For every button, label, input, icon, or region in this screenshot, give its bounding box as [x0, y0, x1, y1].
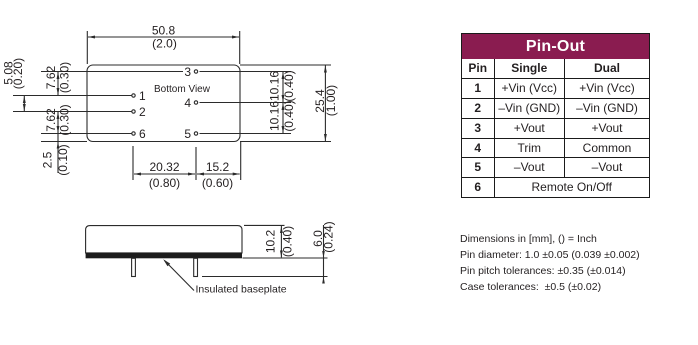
- svg-text:(0.80): (0.80): [149, 176, 180, 190]
- wire: pin 2 extension line: [13, 111, 132, 113]
- pin 3 circle: [194, 70, 197, 73]
- table row pin 2: [462, 98, 495, 118]
- side view pin left: [132, 258, 136, 276]
- dimension 5.08 line: [23, 96, 25, 111]
- dimension 10.2 line: [280, 226, 282, 257]
- svg-text:20.32: 20.32: [149, 160, 179, 174]
- label pin 5: [184, 127, 191, 141]
- svg-text:(0.60): (0.60): [202, 176, 233, 190]
- svg-text:7.62: 7.62: [44, 65, 58, 89]
- svg-text:10.16: 10.16: [268, 101, 282, 131]
- label (0.10) rotated: [56, 144, 70, 175]
- leader arrow to insulated baseplate: [163, 259, 194, 290]
- side view pin right: [194, 258, 198, 276]
- svg-text:3: 3: [184, 65, 191, 79]
- label 25.4 rotated: [313, 89, 327, 113]
- svg-text:(2.0): (2.0): [152, 37, 177, 51]
- svg-text:Bottom View: Bottom View: [154, 84, 211, 95]
- label pin 4: [184, 96, 191, 110]
- svg-text:(0.40): (0.40): [280, 226, 294, 257]
- label (0.20) rotated: [11, 58, 25, 89]
- wire: pin 1 extension line: [13, 95, 132, 97]
- dimension 2.5 line with outside arrow: [57, 134, 60, 174]
- svg-text:4: 4: [184, 96, 191, 110]
- svg-text:10.2: 10.2: [263, 229, 277, 253]
- pin 5 circle: [194, 132, 197, 135]
- label Bottom View: [154, 84, 211, 95]
- label (0.40) lower right rotated: [282, 100, 296, 131]
- table column headers: [462, 59, 495, 78]
- wire: pin 3 right extension line: [200, 71, 292, 73]
- svg-text:1: 1: [139, 89, 146, 103]
- table row pin 6: [462, 177, 495, 197]
- dimension 25.4 line: [324, 66, 326, 142]
- dimension 10.16 upper line: [282, 72, 284, 102]
- dimension 20.32 / 15.2 extension lines: [133, 142, 241, 180]
- label pin 2: [139, 105, 146, 119]
- dimension 10.16 lower line: [282, 103, 284, 133]
- wire: box bottom edge extended right: [240, 141, 331, 143]
- svg-text:(1.00): (1.00): [324, 85, 338, 116]
- label 5.08 rotated: [2, 61, 16, 85]
- label (1.00) rotated: [324, 85, 338, 116]
- wire: pin 5 extension line: [200, 133, 292, 135]
- table row pin 1: [462, 78, 495, 98]
- svg-text:2: 2: [139, 105, 146, 119]
- dimension 7.62 upper line: [57, 72, 59, 95]
- label 7.62 lower rotated: [44, 108, 58, 132]
- dimension 50.8 extension lines: [87, 31, 239, 64]
- label 10.2 rotated: [263, 229, 277, 253]
- label 2.5 rotated: [40, 151, 54, 168]
- svg-text:(0.24): (0.24): [322, 221, 336, 252]
- wire: box top edge extended right: [240, 64, 331, 66]
- svg-text:6: 6: [139, 127, 146, 141]
- label (2.0): [152, 37, 177, 51]
- wire: baseplate bottom extension line: [243, 257, 328, 259]
- pin 1 circle: [132, 94, 135, 97]
- notes text block: [460, 231, 640, 295]
- dimension 6.0 line with outside arrows: [322, 225, 325, 284]
- dimension 20.32 line: [134, 173, 195, 175]
- svg-text:(0.30): (0.30): [58, 62, 72, 93]
- dimension 15.2 line: [197, 173, 240, 175]
- side view insulated baseplate (black strip): [86, 253, 242, 258]
- label 10.16 upper rotated: [268, 71, 282, 101]
- label (0.40) upper right rotated: [282, 70, 296, 101]
- table row pin 3: [462, 118, 495, 138]
- label pin 6: [139, 127, 146, 141]
- label (0.30) lower rotated: [58, 104, 72, 135]
- dimension 50.8 line: [88, 36, 239, 38]
- wire: pin 3 left extension line: [41, 71, 183, 73]
- svg-text:(0.10): (0.10): [56, 144, 70, 175]
- table row pin 5: [462, 157, 495, 177]
- wire: pin tip extension line: [202, 276, 328, 278]
- label 10.16 lower rotated: [268, 101, 282, 131]
- svg-text:15.2: 15.2: [206, 160, 230, 174]
- label 7.62 upper rotated: [44, 65, 58, 89]
- svg-text:(0.40): (0.40): [282, 70, 296, 101]
- label (0.24) rotated: [322, 221, 336, 252]
- table header Pin-Out: [462, 34, 649, 59]
- svg-text:(0.30): (0.30): [58, 104, 72, 135]
- label (0.80): [149, 176, 180, 190]
- label Insulated baseplate: [196, 284, 287, 296]
- pin 6 circle: [132, 132, 135, 135]
- label (0.40) side view rotated: [280, 226, 294, 257]
- top view package outline: [87, 65, 240, 142]
- svg-text:50.8: 50.8: [152, 23, 176, 37]
- label pin 1: [139, 89, 146, 103]
- label 6.0 rotated: [311, 230, 325, 247]
- pin 4 circle: [194, 101, 197, 104]
- svg-text:10.16: 10.16: [268, 71, 282, 101]
- Pin-Out table: [461, 33, 650, 198]
- label (0.30) upper rotated: [58, 62, 72, 93]
- label pin 3: [184, 65, 191, 79]
- svg-text:Insulated baseplate: Insulated baseplate: [196, 284, 287, 296]
- label 15.2: [206, 160, 230, 174]
- dimension 7.62 lower line: [57, 112, 59, 133]
- svg-text:(0.20): (0.20): [11, 58, 25, 89]
- wire: pin 6 extension line: [41, 133, 132, 135]
- svg-text:(0.40): (0.40): [282, 100, 296, 131]
- label (0.60): [202, 176, 233, 190]
- wire: side view top extension line: [244, 224, 285, 226]
- wire: pin 4 extension line: [200, 102, 292, 104]
- label 50.8: [152, 23, 176, 37]
- wire: box bottom edge extended left: [41, 141, 87, 143]
- label 20.32: [149, 160, 179, 174]
- svg-text:7.62: 7.62: [44, 108, 58, 132]
- table row pin 4: [462, 138, 495, 158]
- pin 2 circle: [132, 110, 135, 113]
- side view body: [86, 226, 242, 253]
- svg-text:2.5: 2.5: [40, 151, 54, 168]
- svg-text:5: 5: [184, 127, 191, 141]
